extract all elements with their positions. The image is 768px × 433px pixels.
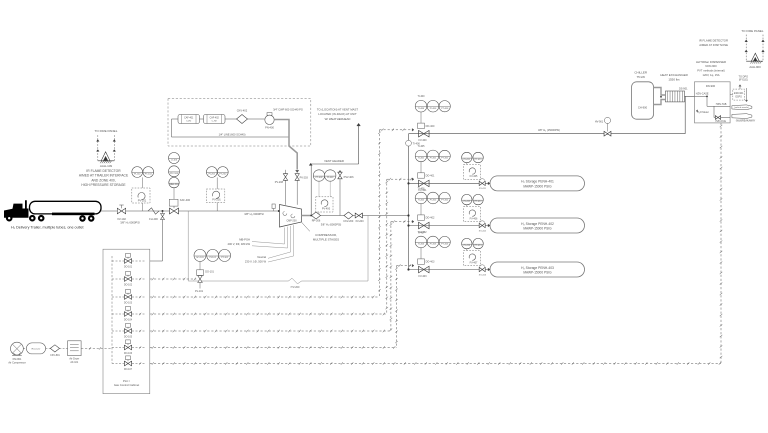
svg-text:CKV-200: CKV-200 [343, 220, 354, 223]
instrument bubbles PI/PT-413 [462, 238, 472, 248]
breakaway nozzle [732, 114, 752, 119]
svg-text:PT-402: PT-402 [441, 200, 449, 202]
svg-text:PI-402: PI-402 [430, 200, 437, 202]
svg-text:TI-400: TI-400 [418, 95, 426, 98]
svg-text:FV-101: FV-101 [195, 290, 204, 293]
svg-text:DO-107: DO-107 [124, 369, 133, 371]
svg-text:LOCATED (IN-RACK) AT UNIT: LOCATED (IN-RACK) AT UNIT [318, 112, 357, 116]
pneumatic line to FV-101 [150, 278, 196, 280]
svg-text:PV-208: PV-208 [275, 181, 284, 184]
regulator PV-101 (future, dashed) [132, 188, 150, 203]
inline thermowell [272, 204, 275, 209]
relief valve PSV-406 [338, 172, 342, 179]
purge inlet valve PV-203 [295, 174, 299, 181]
wire: compressor discharge [302, 215, 312, 217]
svg-text:TI-402: TI-402 [418, 200, 425, 202]
actuated valve FV-403 [419, 266, 429, 272]
svg-text:PT-403: PT-403 [441, 244, 449, 246]
svg-text:PT-101: PT-101 [221, 257, 229, 259]
svg-text:(IF ELE): (IF ELE) [739, 79, 748, 82]
actuated valve FV-402 [419, 222, 429, 228]
H2 tube trailer truck cab [4, 200, 29, 218]
svg-text:PT-402: PT-402 [315, 177, 323, 179]
svg-text:CAF-402: CAF-402 [210, 116, 220, 119]
svg-text:DO-106: DO-106 [124, 353, 133, 355]
svg-text:TI-407: TI-407 [418, 231, 426, 234]
svg-text:VENT HEADER: VENT HEADER [324, 159, 344, 163]
nitrogen purge skid enclosure [168, 99, 311, 147]
svg-text:DO-400: DO-400 [426, 125, 435, 128]
svg-text:DS-901: DS-901 [679, 87, 688, 90]
svg-text:DO-401: DO-401 [426, 175, 435, 178]
svg-text:H2/700bar DISPENSER: H2/700bar DISPENSER [696, 60, 726, 64]
solenoid DO-402 [418, 215, 425, 220]
svg-text:1550 lbs: 1550 lbs [668, 77, 680, 81]
svg-text:TI-400: TI-400 [418, 108, 425, 110]
check valve CKV-402 [237, 115, 248, 124]
svg-text:FV-407: FV-407 [470, 261, 478, 264]
svg-text:SO-101: SO-101 [196, 257, 204, 259]
svg-text:AND ZONE 400,: AND ZONE 400, [91, 178, 115, 182]
svg-text:TI-406: TI-406 [418, 187, 426, 190]
instrument bubbles PI-102 / PT-102 [132, 167, 143, 178]
svg-text:CKV-402: CKV-402 [237, 109, 248, 113]
actuated valve FV-400 [419, 131, 429, 137]
svg-text:SAH-400: SAH-400 [170, 183, 180, 186]
svg-text:MAWP-15000 PSIG: MAWP-15000 PSIG [523, 271, 552, 275]
svg-text:FV-403: FV-403 [418, 275, 427, 278]
air dryer [68, 341, 82, 356]
node: tee to gas control cabinet [162, 210, 164, 212]
svg-text:3/8" H₂ 6000PSI: 3/8" H₂ 6000PSI [120, 220, 140, 224]
instrument bubbles PI/PT-412 [462, 194, 472, 204]
svg-text:PV-203: PV-203 [300, 176, 309, 179]
svg-text:75 kW: 75 kW [636, 75, 645, 79]
svg-text:PSV-406: PSV-406 [344, 176, 354, 179]
wire: vent drop to compressor discharge [310, 164, 312, 216]
regulator PV-201 (future, dashed) [206, 189, 225, 203]
svg-text:CAF-401: CAF-401 [184, 116, 194, 119]
svg-text:XV-412: XV-412 [479, 230, 487, 232]
svg-text:1/4" LINE (600 SCH40): 1/4" LINE (600 SCH40) [219, 133, 246, 137]
wire: riser to heat exchanger [684, 96, 686, 133]
svg-text:LI-105: LI-105 [171, 160, 178, 162]
instrument bubbles bank TI/PI/PT-403 [415, 236, 427, 248]
flex hose FH-400 [148, 208, 159, 214]
pneumatic line to FV-400 [150, 296, 380, 298]
H2 storage vessel PENH-401 [490, 176, 585, 191]
inline gauge TI-400 [406, 140, 412, 146]
svg-text:PT-412: PT-412 [475, 201, 483, 203]
pressure reducing station PV-400 with gauges [169, 153, 180, 164]
regulator FV-405 (dashed) [464, 165, 481, 180]
svg-text:RP-306: RP-306 [312, 220, 321, 223]
svg-text:DO-402: DO-402 [426, 217, 435, 220]
pneumatic line to dispenser [150, 363, 721, 365]
valve XV-200 [355, 213, 362, 218]
svg-text:PI-402: PI-402 [327, 177, 334, 179]
wire: H2 line to dispenser [409, 133, 686, 135]
wire: bank 2 line [409, 225, 491, 227]
svg-text:(W)-BREAKAWAY: (W)-BREAKAWAY [736, 120, 756, 123]
svg-text:C-H2: C-H2 [186, 121, 192, 123]
wire: main H2 supply line from trailer to compressor [101, 210, 280, 212]
motor feeder lines [284, 228, 286, 245]
wire: instrument air to cabinet [81, 347, 112, 349]
wire: purge loop [172, 118, 179, 120]
svg-text:PT-401: PT-401 [441, 158, 449, 160]
air receiver [26, 343, 45, 354]
svg-text:H₂ Storage PENH-403: H₂ Storage PENH-403 [521, 266, 554, 270]
solenoid DO-401 [418, 173, 425, 178]
svg-text:ITV-200: ITV-200 [291, 286, 300, 289]
IR flame detector AAH-900 [751, 53, 759, 61]
svg-text:DO-105: DO-105 [124, 337, 133, 339]
check valve RP-306 [312, 212, 321, 219]
H2 storage vessel PENH-403 [490, 262, 585, 277]
instrument bubbles PI-402 / PT-402 [313, 170, 324, 181]
svg-text:ESPG: ESPG [736, 96, 743, 98]
svg-text:XV-411: XV-411 [479, 188, 487, 190]
instrument bubbles bank TI/PI/PT-400 [415, 100, 427, 112]
svg-text:FH-400: FH-400 [149, 217, 158, 221]
svg-text:DO-103: DO-103 [124, 303, 133, 305]
wire: storage header [408, 134, 410, 270]
svg-text:XAF-400: XAF-400 [180, 198, 191, 202]
svg-text:DO-101: DO-101 [205, 270, 214, 273]
wire: dispenser internal piping [695, 95, 708, 97]
node: compressor inlet junction [278, 210, 280, 212]
svg-text:PT-102: PT-102 [145, 174, 153, 176]
solenoid valve DO-105 in cabinet [112, 330, 124, 332]
check valve CKV-801 [46, 347, 51, 349]
caption compressor [302, 223, 310, 232]
svg-text:HV-901: HV-901 [595, 121, 604, 124]
svg-text:H₂O Meter: H₂O Meter [697, 111, 709, 114]
svg-text:PN-400: PN-400 [265, 125, 274, 129]
svg-text:AAH-900: AAH-900 [749, 65, 761, 69]
pneumatic line to FV-401 [150, 313, 387, 315]
svg-text:COMPRESSOR,: COMPRESSOR, [315, 233, 337, 237]
svg-text:Air Dryer: Air Dryer [69, 358, 79, 361]
svg-text:PI-403: PI-403 [430, 244, 437, 246]
manual valve bank 3 [479, 267, 485, 271]
wire: vent header [311, 163, 359, 165]
svg-text:PVT methods (internal): PVT methods (internal) [697, 69, 725, 73]
svg-text:H₂ Storage PENH-401: H₂ Storage PENH-401 [521, 180, 554, 184]
regulator FV-406 (dashed) [464, 207, 481, 222]
solenoid valve FV-101 [199, 261, 201, 269]
svg-text:CH-900: CH-900 [638, 105, 648, 109]
svg-text:FV-406: FV-406 [470, 217, 478, 220]
svg-text:PI-413: PI-413 [464, 245, 471, 247]
svg-text:TI-405: TI-405 [418, 145, 426, 148]
svg-text:H₂ Delivery Trailer, multiple: H₂ Delivery Trailer, multiple tubes, one… [11, 226, 84, 230]
svg-text:TO FIRE PANEL: TO FIRE PANEL [741, 29, 764, 33]
svg-text:TI-401: TI-401 [418, 158, 425, 160]
svg-text:PIC-106: PIC-106 [170, 173, 179, 175]
actuated valve FV-401 [419, 180, 429, 186]
svg-text:PT-413: PT-413 [475, 245, 483, 247]
manual valve bank 2 [479, 223, 485, 227]
svg-text:AIMED AT DISP NOSE: AIMED AT DISP NOSE [699, 43, 728, 47]
coolant loop [654, 88, 666, 96]
svg-text:PI-102: PI-102 [134, 174, 141, 176]
instrument bubbles SO-101 / PI-101 / PT-101 [194, 249, 206, 261]
svg-text:FV-405: FV-405 [470, 175, 478, 178]
IR flame detector AAH-109 [101, 152, 110, 161]
svg-text:DO-403: DO-403 [426, 261, 435, 264]
svg-text:TO FIRE PANEL: TO FIRE PANEL [95, 129, 118, 133]
instrument bubbles bank TI/PI/PT-402 [415, 192, 427, 204]
solenoid DO-400 [418, 123, 425, 128]
svg-text:PI-400: PI-400 [430, 108, 437, 110]
svg-text:XV-413: XV-413 [479, 274, 487, 276]
wire: purge supply line (thick) down to compressor [275, 120, 298, 170]
svg-text:C-H2: C-H2 [212, 121, 218, 123]
svg-text:DN-900: DN-900 [706, 84, 716, 88]
thermal break ITV-200 [289, 278, 302, 284]
trailer tank [30, 201, 102, 214]
svg-text:PV-400: PV-400 [322, 207, 331, 210]
svg-text:PT-400: PT-400 [441, 108, 449, 110]
svg-text:MAWP-15000 PSIG: MAWP-15000 PSIG [523, 227, 552, 231]
wheels [6, 215, 13, 222]
check valve CKV-200 [344, 212, 353, 219]
svg-text:MULTIPLE STAGES: MULTIPLE STAGES [313, 238, 339, 242]
solenoid valve DO-107 in cabinet [112, 363, 124, 365]
compressor skid boundary [188, 211, 288, 281]
svg-text:W/ WEATHERHEAD: W/ WEATHERHEAD [325, 117, 351, 121]
svg-text:3/8" H₂ (15000PSI): 3/8" H₂ (15000PSI) [538, 128, 560, 132]
filter CAF-402 [204, 115, 226, 124]
svg-text:3/8" H₂ (6000PSI): 3/8" H₂ (6000PSI) [321, 222, 342, 226]
valve XV-102 [117, 208, 125, 213]
pneumatic line to FV-402 [150, 330, 391, 332]
svg-text:ESD-901: ESD-901 [734, 93, 744, 95]
solenoid DO-403 [418, 259, 425, 264]
svg-text:DO-101: DO-101 [124, 267, 133, 269]
svg-text:PI-401: PI-401 [430, 158, 437, 160]
wire: H2 pilot line down to cabinet [150, 211, 163, 261]
svg-text:NON-900: NON-900 [705, 64, 717, 68]
pump PN-400 [265, 115, 274, 124]
svg-text:Air Compressor: Air Compressor [8, 361, 26, 364]
trailer underbody [52, 213, 95, 216]
instrument bubbles PI/PT-411 [462, 152, 472, 162]
wire: HX outlet to dispenser [685, 95, 695, 97]
svg-text:IR FLAME DETECTOR: IR FLAME DETECTOR [86, 169, 121, 173]
svg-text:IR FLAME DETECTOR: IR FLAME DETECTOR [699, 38, 728, 42]
svg-text:Receiver: Receiver [32, 348, 41, 351]
svg-text:Gas Control Cabinet: Gas Control Cabinet [114, 383, 140, 387]
solenoid valve DO-104 in cabinet [112, 313, 124, 315]
compressor CMP-200 multiple stages [280, 205, 302, 228]
svg-text:DO-102: DO-102 [124, 285, 133, 287]
regulator PV-404 (dashed box) [316, 197, 333, 212]
svg-text:400 V, 3Φ, 480 kW: 400 V, 3Φ, 480 kW [227, 242, 250, 246]
svg-text:PV-101: PV-101 [138, 199, 147, 203]
svg-text:PI-101: PI-101 [209, 257, 216, 259]
svg-text:H₂ Storage PENH-402: H₂ Storage PENH-402 [521, 222, 554, 226]
cabinet internal air manifold [111, 256, 113, 364]
air compressor KM-801 [11, 342, 24, 355]
svg-text:DO-104: DO-104 [124, 320, 133, 322]
svg-text:XV-200: XV-200 [355, 220, 364, 223]
manual valve bank 1 [479, 181, 485, 185]
solenoid valve DO-102 in cabinet [112, 278, 124, 280]
wire: bank 1 line [409, 182, 491, 184]
svg-text:TI-403: TI-403 [418, 244, 425, 246]
hand valve HV-901 [604, 131, 611, 136]
pneumatic line to FV-403 [150, 347, 397, 349]
svg-text:AF-101: AF-101 [70, 361, 79, 364]
svg-text:HZN-CASE: HZN-CASE [696, 93, 709, 96]
instrument bubbles PI-202 / PT-202 [206, 167, 217, 178]
svg-text:HZN-TAB: HZN-TAB [716, 103, 727, 106]
svg-text:PT-202: PT-202 [219, 174, 227, 176]
svg-text:PI-202: PI-202 [209, 174, 216, 176]
svg-text:3/8" H₂ 6000PSI: 3/8" H₂ 6000PSI [244, 212, 264, 216]
svg-text:PI-411: PI-411 [464, 159, 471, 161]
svg-text:HZN-FCE: HZN-FCE [716, 120, 727, 123]
svg-text:120V, 1φ, 15A: 120V, 1φ, 15A [702, 73, 719, 77]
svg-text:HIGH PRESSURE STORAGE: HIGH PRESSURE STORAGE [81, 183, 126, 187]
svg-text:Neutral: Neutral [257, 255, 266, 259]
PLC gas control cabinet [103, 249, 150, 394]
svg-text:AAH-109: AAH-109 [100, 164, 113, 168]
wire: bank 3 line [409, 269, 491, 271]
svg-text:KM-801: KM-801 [13, 358, 22, 361]
wire: vent header riser to mast [358, 126, 360, 164]
solenoid valve DO-101 in cabinet [112, 260, 124, 262]
svg-text:MAWP-15000 PSIG: MAWP-15000 PSIG [523, 185, 552, 189]
solenoid valve DO-103 in cabinet [112, 296, 124, 298]
solenoid valve DO-106 in cabinet [112, 347, 124, 349]
svg-text:230 V, 1Φ, 500 W: 230 V, 1Φ, 500 W [245, 260, 267, 264]
svg-text:PV-201: PV-201 [212, 197, 221, 201]
regulator FV-407 (dashed) [464, 251, 481, 266]
H2 storage vessel PENH-402 [490, 218, 585, 233]
svg-text:CMP-200: CMP-200 [286, 219, 297, 222]
filter CAF-401 [178, 115, 200, 124]
svg-text:FV-400: FV-400 [418, 139, 427, 142]
svg-text:3/4" CWP 600 SCH40 PG: 3/4" CWP 600 SCH40 PG [273, 107, 303, 111]
svg-text:AIMED AT TRAILER INTERFACE: AIMED AT TRAILER INTERFACE [79, 174, 129, 178]
instrument bubbles bank TI/PI/PT-401 [415, 150, 427, 162]
svg-text:TO (LOCATION) AT VENT MAST: TO (LOCATION) AT VENT MAST [317, 108, 359, 112]
svg-text:CKV-801: CKV-801 [50, 354, 60, 357]
relief valve PV-202 [285, 180, 287, 204]
fueling nozzle [732, 105, 752, 110]
svg-text:PI-412: PI-412 [464, 201, 471, 203]
svg-text:(vehicle nozzle): (vehicle nozzle) [734, 107, 749, 109]
svg-text:PT-411: PT-411 [475, 159, 483, 161]
svg-text:MB-PGH: MB-PGH [239, 237, 250, 241]
